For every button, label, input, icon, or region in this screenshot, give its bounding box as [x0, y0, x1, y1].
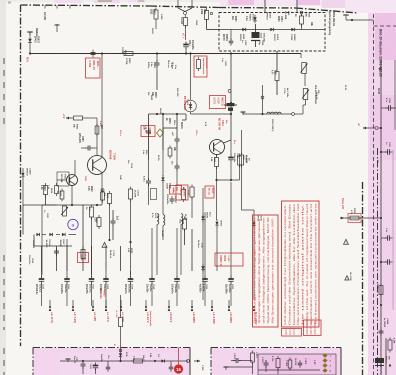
note box red text English — [282, 201, 320, 327]
wire x203 to terminal — [202, 272, 204, 301]
wire x203 vertical branch — [202, 188, 204, 300]
wire main 45V rail horizontal — [30, 53, 301, 55]
terminal tbar top right — [343, 14, 349, 16]
frame scan edge left dashes — [3, 58, 5, 130]
capacitor 1n C603 below box — [230, 30, 232, 41]
wire vertical x181 down — [180, 225, 182, 276]
resistor S2401 T601 — [184, 18, 188, 26]
wire x241 vertical — [241, 130, 243, 155]
wire module2 links — [231, 360, 235, 362]
wire horizontal y246 left — [34, 245, 72, 247]
capacitor C637 1u — [54, 250, 59, 252]
wire 230k down into regulator box — [206, 20, 208, 30]
terminal node M C 245V — [253, 306, 255, 308]
thyristor BSTC0248 D611 — [185, 100, 197, 112]
resistor R627 1k — [128, 189, 132, 199]
wire bus to transistor — [224, 140, 232, 143]
module box Ton-ZF bottom-left dash-dot — [33, 347, 190, 349]
capacitor C630 100u/6v electrolytic — [105, 271, 107, 277]
frame border top dash-dot — [21, 5, 151, 6]
wire x148 vertical mid — [148, 160, 150, 180]
wire left cluster row y205 — [23, 204, 102, 206]
wire y210 jog to 245V line — [242, 209, 255, 211]
wire x148 upper — [148, 114, 150, 160]
wire BD648 collector up — [101, 54, 103, 158]
arrow +F to Bild-ZF — [363, 127, 369, 129]
capacitor C341 strip lower2 — [381, 261, 387, 263]
component box U-0M R60 red top — [170, 186, 182, 195]
scan smudge top — [98, 0, 112, 2]
resistor R638 563k — [190, 187, 194, 197]
diode D647 mid — [162, 150, 164, 176]
module boundary dashed line Bild-ZF — [373, 14, 375, 375]
node open circle coil right — [292, 113, 295, 116]
diode row extra D639 — [36, 233, 39, 236]
transistor symbol circled G blue — [68, 219, 78, 229]
component BKE2 3 30E dark — [375, 358, 384, 363]
note box red small lower 2 — [304, 320, 322, 336]
node rail junction x157 — [156, 52, 158, 54]
wire trimmer to coil node — [305, 100, 307, 106]
module2 extra parts — [265, 360, 267, 362]
wire bus continues down — [216, 180, 218, 218]
wire x83 up — [82, 205, 84, 249]
diode D504 on 245V line — [252, 222, 255, 225]
wire terminal stubs — [49, 300, 51, 307]
wire diamond link — [159, 114, 161, 129]
resistor 4.7k R65 below box — [276, 51, 278, 70]
diode FD120 D651 — [242, 28, 245, 31]
note box red text German — [253, 215, 279, 327]
terminal node +L 7.5V — [120, 306, 122, 308]
wire transistor emitter down — [216, 155, 218, 158]
capacitor C610 mid cluster — [175, 138, 180, 140]
trimmer resistor 220k R606 — [300, 11, 303, 14]
capacitor C652 100u electrolytic black — [252, 32, 260, 38]
resistor R2E4 module2 — [288, 360, 292, 368]
wire T603 collector to BD base — [74, 160, 76, 175]
wire trimmer chain from regulator — [300, 54, 302, 59]
resistor 4.7k R619 — [55, 186, 59, 194]
wire row under transistor — [217, 179, 240, 181]
resistor R636 36k — [107, 194, 111, 204]
coil L673 — [181, 214, 183, 225]
arrow +4V left — [66, 117, 71, 119]
wire T603 base left — [57, 179, 67, 181]
capacitor C1E1 module2 — [235, 358, 237, 363]
capacitor C632 100u/35v electrolytic — [66, 271, 68, 277]
wire rail down to thyristor — [190, 54, 192, 101]
module box Spannungsregelung dashed — [219, 13, 325, 52]
diode ZP416 on x217 — [216, 218, 218, 220]
arrow module output right — [194, 360, 200, 362]
capacitor C608 — [175, 165, 180, 167]
pink patches top edge — [54, 0, 82, 3]
wire cap feeds row y246-271 — [41, 246, 43, 271]
diode TN409 D653 vertical black — [253, 17, 257, 21]
wire vertical x157 down — [156, 225, 158, 276]
resistor R335 in strip — [388, 340, 392, 350]
wire x192 down to caps — [191, 229, 193, 271]
wire thyristor gate stub — [185, 114, 187, 120]
diamond connector pins 1-4 — [322, 353, 327, 357]
capacitor C336 in Bild-ZF — [381, 107, 388, 109]
capacitor C340 strip lower — [381, 237, 387, 239]
capacitor C633 220u/6.3 electrolytic — [41, 271, 43, 277]
capacitor C2E2 module2 — [264, 362, 269, 364]
terminal node +E 13 V) — [49, 306, 51, 308]
resistor R2E3 module2 — [276, 359, 280, 368]
component box S614 — [151, 189, 157, 200]
capacitor C628 10u/35v electrolytic — [151, 271, 153, 277]
diamond test point node — [157, 129, 164, 137]
wire y218 into module — [362, 217, 381, 219]
resistor R652 base chain — [95, 126, 99, 134]
capacitor C638 midrow — [111, 220, 116, 222]
wire y114 center cluster horizontal — [149, 113, 187, 115]
resistor R7 2700 on x241 — [240, 54, 242, 151]
node bus connector — [228, 90, 231, 93]
module box bottom-right dash-dot — [211, 347, 341, 349]
wire x45 down — [45, 195, 47, 206]
resistor R637 1k — [89, 207, 93, 217]
capacitor C609 center — [146, 130, 151, 132]
resistor R336 4.7k boxed — [348, 214, 361, 223]
wire vertical x130 down — [130, 199, 132, 275]
capacitor C627 100u/40v electrolytic — [176, 271, 178, 277]
resistor R639 left — [44, 186, 48, 195]
terminal tbar module left — [66, 358, 71, 360]
capacitor C650 — [87, 146, 89, 151]
diode 2N4007 D637 — [62, 233, 65, 236]
pink fill bottom-left module Ton-ZF — [33, 348, 190, 375]
node junctions row y242 — [129, 241, 131, 243]
wire diode row — [42, 234, 46, 236]
node red circle 15 — [174, 364, 183, 373]
resistor R610 center — [168, 148, 172, 156]
node junction Bild-ZF y152 — [380, 151, 382, 153]
capacitor C600 on rail — [91, 52, 96, 54]
component box C600 MKL-TC 390V red — [86, 58, 101, 78]
component box Impulsbaustein red — [194, 56, 207, 77]
terminal T-bar left of coil row — [241, 111, 246, 113]
pink fill bottom-right module — [211, 348, 341, 375]
node open circle module out — [187, 360, 190, 363]
wire vertical x91 down — [91, 217, 93, 275]
wire Bild-ZF bus x381 — [380, 60, 382, 375]
node rail junction x231 — [230, 52, 232, 54]
wire regulator rail — [219, 29, 325, 31]
capacitor C613 electrolytic — [228, 157, 234, 159]
resistor R612 — [238, 156, 242, 165]
tick marks top frame — [44, 5, 46, 8]
wire x157 upper stub — [156, 70, 158, 90]
trimmer R635 with circle — [101, 189, 104, 192]
inductor SOLG 099.2 — [267, 112, 281, 114]
wire red feed down — [178, 348, 180, 365]
component box label BC328B T603 — [57, 172, 69, 186]
wire faint right edge x393 — [392, 150, 394, 310]
ground triangle symbol mid — [102, 242, 107, 247]
trimmer R605 lower — [303, 89, 308, 100]
wire top-left stub — [56, 24, 58, 32]
wire vertical x109 down — [109, 204, 111, 241]
diode D701 module input — [119, 349, 122, 352]
resistor R702 2.2u — [134, 359, 143, 363]
node junction x262 on coil row — [261, 113, 263, 115]
resistor 100k inside Impulsbaustein — [197, 60, 201, 69]
capacitor C625 22u/385v electrolytic — [230, 271, 232, 277]
wire horizontal y205 mid — [42, 204, 57, 206]
capacitor C701 module — [81, 363, 86, 365]
resistor 230k 0601 feed — [205, 11, 209, 20]
terminal node +L 15 V — [105, 306, 107, 308]
resistor R337 strip — [379, 286, 383, 295]
ground triangle right — [344, 239, 349, 244]
wire x262 vertical with connector — [262, 85, 264, 114]
component box C73 C67 MKC10 red — [210, 96, 226, 109]
transistor T604 BC328 — [210, 140, 225, 155]
diode 2N506 D13 — [201, 216, 204, 219]
wire thyristor to bus — [190, 112, 192, 114]
transistor T603 BC328B small — [67, 175, 78, 186]
wire top right y20 — [346, 19, 374, 21]
resistor 0232 D601 top — [154, 10, 158, 19]
trimmer R604 upper — [302, 63, 307, 74]
resistor R410 below transistor — [215, 158, 219, 167]
wire main bus x231 — [230, 54, 232, 141]
capacitor 220p C605 below box — [261, 45, 263, 47]
wire x163 upper — [162, 114, 164, 150]
diode ZPD6.8 C636 left edge — [22, 168, 24, 171]
resistor R633 1k — [60, 191, 64, 199]
node dots Bild-ZF lower — [380, 261, 382, 263]
wire right edge — [394, 60, 396, 130]
terminal node +R 280V — [191, 306, 193, 308]
capacitor C2E5 module2 — [298, 362, 303, 364]
component box R618 red — [141, 126, 155, 137]
wire left vertical x42 — [41, 205, 43, 275]
wire R653 to base node — [85, 117, 97, 119]
wire between trimmers — [304, 74, 306, 87]
terminal node +F 18V — [92, 306, 94, 308]
terminal node +G 24 V — [145, 306, 147, 308]
wire harness verticals upper — [41, 238, 43, 271]
wire BD648 emitter down — [101, 173, 103, 188]
diode FD120 D652 — [270, 28, 273, 31]
note box red small lower 1 — [282, 329, 302, 337]
terminal tbar module2 — [224, 366, 229, 368]
node junction Bild-ZF y128 — [380, 127, 382, 129]
terminal node +A 2.38V — [211, 306, 213, 308]
diode D616 dark — [201, 266, 204, 269]
diode D702 module — [161, 359, 164, 362]
node bus junction 103 — [230, 102, 232, 104]
wire base vertical — [96, 118, 98, 155]
pink module strip right: Bild-ZF-Baustein background — [368, 0, 396, 375]
wire module2 bus — [258, 369, 320, 371]
triangle marker in Bild-ZF — [379, 68, 382, 71]
wire tuner feed y218 — [340, 217, 362, 219]
wire SL-Modul feed x120 — [120, 295, 122, 316]
component box MABC10 R616 red — [215, 253, 243, 266]
module inner box — [258, 354, 336, 375]
component C3 right lower — [345, 276, 349, 280]
transistor T606 BD648 power — [88, 156, 107, 175]
coil L697 47u — [163, 215, 165, 226]
diamond wire — [159, 137, 161, 150]
capacitor C604 100u/35v electrolytic — [183, 44, 189, 46]
node rail junction x186 — [185, 52, 187, 54]
wire coil row y114 — [243, 113, 292, 115]
wire BD648 emitter to row — [101, 188, 103, 205]
wire module bus y361 — [60, 360, 188, 362]
capacitor C702 module — [93, 365, 99, 367]
wire y205 left extension — [22, 205, 24, 235]
wire strip double line lower — [385, 338, 387, 375]
capacitor C607 left mid — [146, 180, 151, 182]
node Y junction top — [177, 0, 179, 8]
wire x177 upper — [176, 114, 178, 128]
capacitor C338 strip — [379, 330, 384, 332]
capacitor 1500pF C617 — [170, 198, 175, 200]
trimmer R623 — [63, 206, 67, 216]
resistor R2E1 module2 — [251, 353, 255, 362]
component box 4E19 R614 red — [78, 253, 89, 263]
terminal node +A 7.2V) — [72, 306, 74, 308]
capacitor 1.5n C605 800Vs — [156, 54, 158, 63]
wire y128 stub center — [163, 127, 177, 129]
resistor M651 1705A on rail — [124, 52, 133, 56]
coil L672 47u — [157, 214, 159, 225]
node 45V junction — [29, 52, 31, 54]
diode ZPD10 D607 top-left — [27, 31, 33, 33]
wire feeds into box top — [264, 0, 266, 13]
component box 4M15u R61G red — [205, 186, 214, 198]
wire x183 down — [184, 229, 186, 245]
frame border right dash-dot lower — [362, 182, 364, 375]
second dash-dot line pink strip — [377, 148, 379, 375]
resistor R640 — [81, 250, 85, 259]
capacitor C631 220u/75v electrolytic — [91, 271, 93, 277]
wire resistor D601 down — [155, 22, 157, 30]
resistor R615 — [181, 190, 185, 200]
diode T3109 D656 — [291, 28, 294, 31]
resistor R653 28k — [74, 116, 83, 120]
capacitor cluster C612 black — [227, 103, 235, 106]
noise overlay — [0, 0, 1, 1]
diode 1N4001 D638 — [49, 233, 52, 236]
module1 extra caps — [107, 361, 109, 366]
node dots bottom strip — [380, 364, 382, 366]
wire S2401 down to rail — [185, 26, 187, 41]
resistor H400 1k — [119, 318, 123, 327]
component box R60 2702.7k red — [176, 185, 188, 200]
frame border left dash-dot — [20, 5, 22, 346]
capacitor C626 4u/350v electrolytic — [204, 271, 206, 277]
terminal node +D 24 V — [168, 306, 170, 308]
capacitor C629 220u/40v electrolytic — [130, 271, 132, 277]
capacitor C703 module — [170, 361, 172, 366]
terminal node +R 280V — [228, 306, 230, 308]
wire T603 emitter down — [71, 186, 73, 206]
capacitor C337 — [381, 151, 387, 153]
resistor R641 midrow — [97, 218, 101, 227]
